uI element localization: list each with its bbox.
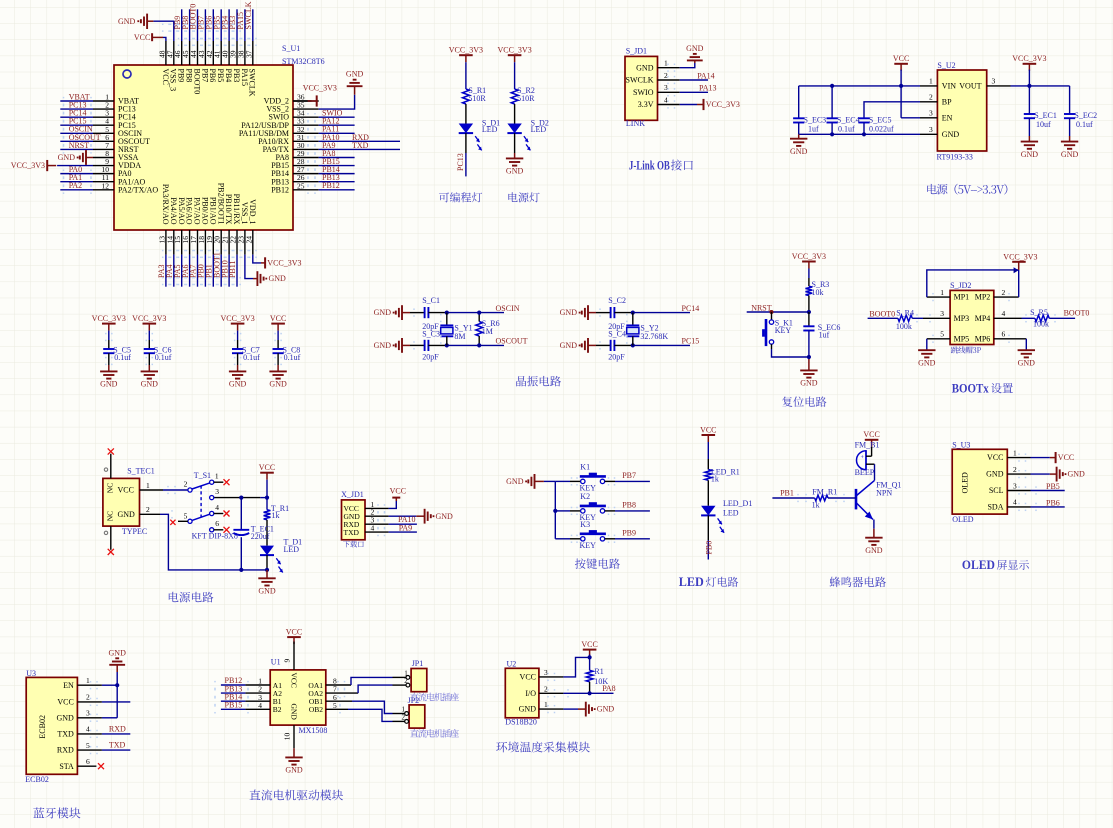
grid snap dots crystal S_Y1	[413, 308, 441, 349]
junction cap top	[239, 496, 243, 500]
wire U3 pin1 EN	[77, 684, 117, 686]
wire S_Y2 top pin	[632, 313, 634, 326]
wire S_D1 top	[465, 62, 467, 89]
svg-text:B2: B2	[273, 705, 282, 714]
svg-text:GND: GND	[986, 470, 1004, 479]
power VCC_3V3 for S_D1	[449, 46, 483, 63]
power VCC LED circuit	[700, 425, 716, 442]
svg-text:1uf: 1uf	[808, 125, 819, 134]
svg-text:VCC: VCC	[270, 314, 286, 323]
capacitor S_EC6	[803, 323, 840, 339]
svg-text:S_U1: S_U1	[282, 44, 300, 53]
svg-text:4: 4	[86, 725, 90, 734]
svg-text:PB1: PB1	[780, 489, 794, 498]
svg-text:100k: 100k	[1033, 319, 1049, 328]
svg-text:NC: NC	[106, 511, 115, 521]
wire S_JD2 pin4	[994, 317, 1035, 319]
wire S_EC2 top	[1069, 86, 1071, 114]
wire K2 left	[555, 510, 580, 512]
svg-text:PB5: PB5	[216, 69, 225, 83]
title anjian dianlu	[575, 558, 620, 569]
svg-text:VSS_1: VSS_1	[240, 202, 249, 225]
svg-text:PB1/AO: PB1/AO	[208, 197, 217, 225]
svg-text:8M: 8M	[454, 332, 465, 341]
net label PB7	[622, 471, 636, 480]
wire S_C5 top	[108, 331, 110, 349]
power VCC X_JD1	[390, 487, 406, 498]
wire OA2 to JP1 pin2	[326, 685, 393, 693]
svg-text:5: 5	[333, 701, 337, 710]
ground S_U3 pin2	[1057, 467, 1085, 482]
value xiazaikou	[343, 541, 364, 548]
grid snap dots S_C8	[274, 333, 282, 365]
wire U3 pin4 TXD	[77, 733, 130, 735]
svg-text:2: 2	[929, 93, 933, 102]
wire S_EC1 top	[1028, 86, 1030, 114]
svg-text:GND: GND	[800, 379, 818, 388]
LED S_D1	[459, 119, 500, 151]
svg-text:3: 3	[86, 709, 90, 718]
svg-text:K2: K2	[580, 492, 590, 501]
ground S_C4 row2	[560, 338, 596, 353]
svg-text:PA7/AO: PA7/AO	[193, 197, 202, 224]
grid snap dots TYPEC	[167, 486, 176, 519]
power VCC_3V3 reset	[792, 252, 826, 269]
svg-text:GND: GND	[141, 380, 159, 389]
capacitor S_C2	[608, 296, 626, 331]
wire K3 right	[605, 538, 650, 540]
net label PC13	[456, 153, 465, 171]
svg-text:S_U2: S_U2	[937, 61, 955, 70]
svg-text:VCC_3V3: VCC_3V3	[132, 314, 166, 323]
wires MCU right nets	[319, 117, 400, 190]
net label PA9	[399, 524, 413, 533]
svg-text:SCL: SCL	[989, 486, 1004, 495]
svg-text:VDD_1: VDD_1	[248, 199, 257, 224]
wire EN to VIN	[901, 86, 920, 118]
wires S_U2 left pin stubs	[920, 86, 937, 134]
ground temp	[586, 702, 615, 717]
svg-text:GND: GND	[1021, 150, 1039, 159]
svg-text:PB11: PB11	[228, 261, 237, 279]
wire K1 right	[605, 480, 650, 482]
crystal S_Y2	[626, 324, 668, 341]
wire X_JD1 pin2 to GND	[365, 515, 425, 517]
no-connect X T_S1 pin6	[224, 527, 230, 533]
wire S_C3 left	[410, 344, 425, 346]
svg-text:MX1508: MX1508	[299, 726, 328, 735]
designator S_TEC1	[127, 466, 155, 475]
svg-text:PB12: PB12	[271, 185, 289, 194]
grid snap dots U3	[90, 681, 98, 754]
junction S_C4 row2	[631, 343, 635, 347]
svg-text:LED_D1: LED_D1	[723, 499, 752, 508]
wire S_C5 bottom	[108, 353, 110, 371]
power VCC_3V3 VOUT	[1012, 54, 1046, 86]
ground S_C8	[269, 371, 287, 388]
wire VIN rail left drop	[798, 86, 800, 118]
grid snap dots S_JD1	[667, 64, 675, 109]
ground MCU pin47 VSS_3	[118, 14, 153, 29]
MCU pin names	[118, 69, 290, 225]
wire S_JD1 pin4 to VCC_3V3	[658, 104, 698, 106]
grid snap dots S_C5	[105, 333, 113, 365]
connector JP2 body	[409, 705, 425, 728]
svg-text:VSS_3: VSS_3	[169, 69, 178, 92]
svg-text:GND: GND	[56, 713, 74, 722]
svg-text:PB15: PB15	[225, 701, 243, 710]
svg-text:PA13: PA13	[699, 84, 717, 93]
ground S_EC1	[1021, 142, 1039, 159]
svg-text:6: 6	[215, 519, 219, 528]
svg-text:PB11/RX: PB11/RX	[232, 194, 241, 225]
grid snap dots MCU	[162, 24, 316, 286]
value MX1508	[299, 726, 328, 735]
switch S_K1 KEY	[762, 319, 793, 347]
svg-text:K3: K3	[580, 520, 590, 529]
svg-text:GND: GND	[285, 766, 303, 775]
svg-text:1: 1	[544, 700, 548, 709]
svg-text:ECB02: ECB02	[25, 775, 49, 784]
svg-text:NC: NC	[106, 483, 115, 493]
net label NRST	[751, 303, 772, 312]
svg-text:GND: GND	[597, 705, 615, 714]
svg-text:PB7: PB7	[200, 69, 209, 83]
wire emitter to ground	[873, 520, 875, 538]
wire switch top pin	[771, 312, 773, 320]
power VCC_3V3 for S_C5	[92, 314, 126, 331]
module U3 pin names and numbers	[56, 676, 90, 771]
wires MCU top nets	[182, 9, 253, 41]
svg-text:JP2: JP2	[408, 696, 420, 705]
svg-text:VCC: VCC	[700, 425, 716, 434]
wire T_R1 to LED	[266, 520, 268, 546]
svg-text:20pF: 20pF	[422, 353, 439, 362]
junction S_EC5 bottom	[862, 132, 866, 136]
svg-text:TXD: TXD	[352, 141, 369, 150]
net label PB0	[705, 541, 714, 555]
svg-text:GND: GND	[636, 63, 654, 72]
ground S_C7	[229, 371, 247, 388]
capacitor S_C3	[422, 329, 440, 361]
svg-text:VCC_3V3: VCC_3V3	[220, 314, 254, 323]
wire NRST	[747, 311, 809, 313]
wire U1 pin10 GND	[283, 725, 295, 757]
svg-text:RXD: RXD	[109, 724, 126, 733]
power VCC temp	[581, 640, 597, 657]
switch T_S1 pole1	[188, 471, 214, 492]
no-connect X bottom	[108, 549, 114, 555]
net labels MCU right	[322, 109, 369, 191]
svg-text:GND: GND	[560, 308, 578, 317]
svg-text:VCC: VCC	[1058, 453, 1074, 462]
connector S_JD2 body	[950, 290, 994, 344]
ground left rail	[790, 139, 808, 156]
svg-text:S_R5: S_R5	[1030, 308, 1048, 317]
svg-text:FM_B1: FM_B1	[855, 441, 880, 450]
svg-text:X_JD1: X_JD1	[341, 490, 364, 499]
svg-text:LED: LED	[679, 575, 704, 589]
svg-text:VCC: VCC	[893, 54, 909, 63]
label motor socket 1	[410, 693, 459, 702]
wire T_S1 pin6 stub	[214, 529, 224, 531]
capacitor S_C4	[608, 329, 626, 361]
svg-text:SWIO: SWIO	[633, 88, 654, 97]
value tiaoxianmao3P	[951, 346, 981, 353]
wire LED_R1 top	[707, 442, 709, 470]
svg-text:3.3V: 3.3V	[638, 100, 654, 109]
svg-text:GND: GND	[506, 167, 524, 176]
wire S_R3 to NRST node	[808, 296, 810, 313]
value RT9193-33	[937, 153, 973, 162]
svg-text:PB0: PB0	[705, 541, 714, 555]
label motor socket 2	[410, 729, 459, 738]
net labels MCU bottom	[157, 252, 237, 278]
wire U1 pin9 VCC	[283, 642, 295, 670]
value BEEP	[855, 468, 875, 477]
svg-text:RXD: RXD	[57, 746, 74, 755]
power VCC_3V3 for S_D2	[497, 46, 531, 63]
grid snap dots S_C6	[146, 333, 154, 365]
title temperature module	[496, 741, 590, 752]
no-connect X U3 STA	[98, 763, 104, 769]
grid snap dots K1	[571, 477, 616, 485]
wire MCU pin47 to ground	[153, 21, 173, 41]
svg-text:5: 5	[86, 741, 90, 750]
svg-text:32.768K: 32.768K	[640, 332, 668, 341]
ground X_JD1 pin2	[425, 509, 453, 524]
grid snap dots S_U3	[1018, 453, 1037, 511]
capacitor S_EC3	[793, 115, 826, 133]
wire S_EC2 bottom	[1069, 118, 1071, 141]
wires U1 left pins	[221, 685, 270, 709]
svg-text:DS18B20: DS18B20	[505, 718, 537, 727]
svg-text:GND: GND	[109, 648, 127, 657]
svg-text:5: 5	[940, 330, 944, 339]
wire switch bottom	[772, 344, 809, 357]
designator S_U2	[937, 61, 955, 70]
svg-text:5: 5	[184, 511, 188, 520]
power VCC MCU pin48	[134, 33, 163, 42]
svg-text:VCC: VCC	[161, 69, 170, 85]
svg-text:PB12: PB12	[322, 181, 340, 190]
wire U3 pin2 VCC	[77, 701, 130, 703]
label ECB02 vertical	[38, 715, 47, 739]
power VCC_3V3 MCU pin9	[11, 160, 56, 171]
power VCC motor	[286, 628, 302, 645]
junction NRST column	[807, 310, 811, 314]
wire S_Y2 bottom pin	[632, 336, 634, 345]
net label PB6	[1046, 498, 1060, 507]
svg-text:VCC_3V3: VCC_3V3	[303, 83, 337, 92]
ground buzzer	[865, 538, 883, 555]
svg-text:1: 1	[940, 288, 944, 297]
value OLED under box	[952, 515, 974, 524]
grid snap dots buzzer	[797, 494, 845, 502]
wires MCU bottom nets	[166, 255, 237, 287]
ground S_JD2 pin5	[918, 350, 936, 367]
LED S_D2	[507, 119, 548, 151]
wire S_TEC1 pin2 down	[140, 514, 268, 570]
designator S_JD1	[626, 46, 647, 55]
wire S_C6 top	[148, 331, 150, 349]
wire S_EC4 bottom	[831, 123, 833, 135]
svg-text:LED: LED	[284, 545, 300, 554]
svg-text:1: 1	[86, 676, 90, 685]
title J-Link OB jiekou	[629, 159, 693, 173]
no-connect X top	[108, 448, 114, 454]
svg-text:4: 4	[1013, 498, 1017, 507]
resistor S_R3	[806, 280, 830, 297]
svg-text:S_EC5: S_EC5	[869, 115, 892, 124]
wires MCU top pin stubs	[166, 41, 253, 65]
resistor S_R1	[463, 86, 487, 104]
wire VIN rail	[799, 85, 920, 87]
wire MCU pin23 VSS_1 to ground	[245, 255, 253, 279]
switch T_S1 linkage	[200, 486, 202, 518]
wire S_EC3 bottom	[798, 123, 800, 139]
svg-text:PB10/TX: PB10/TX	[224, 194, 233, 225]
grid snap dots K2	[571, 507, 616, 515]
svg-text:2: 2	[86, 693, 90, 702]
svg-text:10: 10	[283, 732, 292, 740]
svg-text:T_S1: T_S1	[194, 471, 211, 480]
designator FM_B1	[855, 441, 880, 450]
net label PC14	[682, 304, 700, 313]
svg-text:0.1uf: 0.1uf	[284, 353, 301, 362]
svg-text:GND: GND	[374, 308, 392, 317]
svg-text:KEY: KEY	[775, 326, 792, 335]
svg-text:K1: K1	[580, 462, 590, 471]
svg-text:1uf: 1uf	[819, 331, 830, 340]
svg-text:NRST: NRST	[751, 303, 772, 312]
junction key bus K2	[553, 509, 557, 513]
net label PA10	[398, 515, 416, 524]
svg-text:S_EC1: S_EC1	[1034, 111, 1057, 120]
svg-text:2: 2	[1013, 465, 1017, 474]
svg-text:PB6: PB6	[1046, 498, 1060, 507]
svg-text:0.1uf: 0.1uf	[114, 353, 131, 362]
driver U1 pin names and numbers	[258, 673, 337, 721]
wire S_Y1 top pin	[446, 313, 448, 326]
svg-text:3: 3	[929, 125, 933, 134]
svg-text:PA4/AO: PA4/AO	[169, 197, 178, 224]
junction VIN-VCC	[899, 84, 903, 88]
ground S_D2	[506, 158, 524, 175]
svg-text:3: 3	[544, 668, 548, 677]
capacitor T_EC1	[233, 525, 274, 541]
svg-text:0.1uf: 0.1uf	[155, 353, 172, 362]
svg-text:U3: U3	[26, 669, 36, 678]
wire S_D1 mid	[465, 104, 467, 124]
connector JP1 pins	[393, 669, 410, 687]
svg-text:GND: GND	[506, 477, 524, 486]
ground MCU pin23	[253, 271, 286, 286]
wire S_C1 left	[410, 312, 425, 314]
svg-text:VCC_3V3: VCC_3V3	[92, 314, 126, 323]
svg-text:PA2/TX/AO: PA2/TX/AO	[118, 185, 158, 194]
svg-text:0.022uf: 0.022uf	[869, 125, 894, 134]
svg-text:MP1: MP1	[954, 293, 970, 302]
svg-text:BOOT0: BOOT0	[869, 309, 895, 318]
svg-text:1k: 1k	[812, 501, 820, 510]
svg-text:4: 4	[664, 95, 668, 104]
capacitor S_C7	[232, 345, 260, 362]
wires MCU bottom pin stubs	[166, 230, 253, 255]
driver U1 body	[270, 670, 326, 725]
junction NRST switch	[770, 310, 774, 314]
MCU pin numbers	[102, 50, 305, 243]
junction S_EC4 bottom	[830, 132, 834, 136]
designator U3	[26, 669, 36, 678]
connector X_JD1 body	[342, 500, 366, 540]
wire K3 left	[555, 538, 580, 540]
junction T_R1 top	[265, 496, 269, 500]
svg-text:LINK: LINK	[626, 119, 645, 128]
svg-text:PB9: PB9	[177, 69, 186, 83]
svg-text:BEEP: BEEP	[855, 468, 875, 477]
title OLED ping xianshi	[962, 558, 1029, 572]
title kebianchengdeng	[439, 192, 482, 202]
svg-text:VCC: VCC	[390, 487, 406, 496]
ground S_EC2	[1061, 142, 1079, 159]
svg-text:LED: LED	[482, 125, 498, 134]
capacitor S_C8	[273, 345, 301, 362]
svg-text:PA15: PA15	[240, 69, 249, 86]
wire S_TEC1 shell bottom	[104, 526, 111, 550]
svg-text:VCC: VCC	[520, 673, 536, 682]
wire U2 pin1 GND	[539, 708, 586, 710]
module U3 body	[26, 677, 77, 774]
transistor FM_Q1 NPN	[856, 480, 901, 519]
wire S_TEC1 pin1 to switch	[140, 489, 188, 491]
title fuwei dianlu	[782, 396, 826, 406]
svg-text:PB2/BOOT1: PB2/BOOT1	[216, 183, 225, 225]
ground S_JD1 pin1	[686, 44, 704, 61]
ground keys	[506, 474, 544, 489]
wire S_C4 left	[596, 344, 611, 346]
svg-text:S_C1: S_C1	[422, 296, 440, 305]
svg-text:220uf: 220uf	[251, 532, 270, 541]
wire OB1 to JP2 pin1	[326, 701, 393, 713]
switch T_S1 pin numbers	[184, 472, 220, 529]
wire S_R5 right BOOT0	[1049, 317, 1075, 319]
value STM32C8T6	[282, 57, 325, 66]
svg-text:VCC: VCC	[118, 486, 134, 495]
svg-text:PA3/RX/AO: PA3/RX/AO	[161, 184, 170, 225]
connector S_JD1 body	[625, 56, 658, 120]
designator X_JD1	[341, 490, 364, 499]
wires MCU right pin stubs	[293, 101, 319, 190]
power VCC_3V3 for S_C7	[220, 314, 254, 331]
svg-text:1: 1	[146, 481, 150, 490]
junction U3 EN	[115, 683, 119, 687]
svg-text:JP1: JP1	[412, 659, 424, 668]
net labels MCU left	[69, 92, 101, 190]
svg-text:3: 3	[215, 487, 219, 496]
resistor LED_R1	[705, 467, 740, 483]
svg-text:PC13: PC13	[456, 153, 465, 171]
svg-text:S_U3: S_U3	[952, 440, 970, 449]
junction cap bottom	[239, 568, 243, 572]
svg-text:I/O: I/O	[525, 689, 536, 698]
svg-text:0.1uf: 0.1uf	[243, 353, 260, 362]
svg-text:BP: BP	[942, 97, 952, 106]
wire S_R4 left BOOT0	[868, 317, 898, 319]
net labels PB12-PB15	[225, 676, 243, 709]
svg-text:TYPEC: TYPEC	[122, 527, 147, 536]
capacitor S_EC4	[827, 115, 860, 133]
